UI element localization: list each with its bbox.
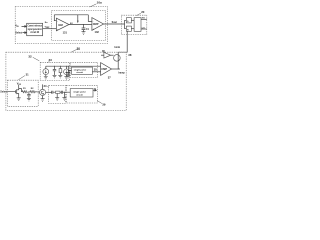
svg-text:Isink: Isink: [115, 46, 121, 49]
ground (stub b): [62, 98, 66, 101]
svg-text:132: 132: [95, 30, 100, 34]
wire I1 top to rail: [45, 66, 47, 69]
svg-text:VIN: VIN: [15, 25, 19, 29]
outer dashed box 10a (top converter block): [15, 7, 107, 44]
node label Vref: [45, 26, 50, 29]
leader 10a: [90, 4, 97, 7]
dashed sub-box 31 (reference divider): [8, 80, 39, 106]
wire Q1 source to ground: [18, 95, 20, 98]
wire input Vin arrow: [22, 26, 27, 28]
ground (I1): [44, 77, 48, 80]
svg-text:signal generation: signal generation: [28, 28, 43, 31]
svg-text:R2: R2: [31, 88, 35, 90]
wire CMP output Sout to latch: [104, 23, 123, 25]
leader 32: [33, 57, 40, 61]
junction dot divider: [28, 91, 29, 92]
wire output LO: [141, 28, 147, 30]
leader 20: [136, 13, 141, 15]
wire feedback top rail: [54, 14, 88, 16]
wire latch to driver bottom: [131, 28, 134, 30]
ground (C6): [66, 75, 70, 78]
pin label R: [127, 29, 129, 31]
label 30: [77, 47, 81, 51]
svg-text:35: 35: [94, 67, 98, 71]
dashed sub-box 35 (ramp cell): [70, 62, 97, 77]
leader 31: [18, 76, 25, 80]
svg-text:CMP: CMP: [101, 67, 107, 71]
wire Vdd stub: [18, 85, 20, 89]
block: single pulse circuit B: [70, 89, 93, 97]
driver block: [134, 18, 141, 32]
svg-text:C1: C1: [86, 29, 90, 31]
svg-text:circuit 30: circuit 30: [30, 31, 40, 34]
wire shunt stub a: [56, 93, 58, 97]
wire boxA to CMP2 lower input: [92, 71, 100, 73]
wire latch to driver top: [131, 19, 134, 21]
svg-text:CMP: CMP: [93, 22, 99, 26]
junction dot stub b: [64, 92, 65, 93]
svg-text:circuit: circuit: [76, 93, 83, 96]
transistor Q1 (switch MOSFET): [8, 89, 19, 95]
junction dot C2: [54, 66, 55, 67]
wire shunt stub b: [63, 92, 65, 97]
net label Isink: [115, 46, 121, 49]
wire Q1 drain to divider: [19, 89, 22, 92]
block: single pulse circuit A: [72, 67, 93, 74]
label 10a: [97, 1, 102, 5]
dashed box 20 (drive logic): [121, 15, 147, 34]
svg-text:30: 30: [77, 47, 81, 51]
wire I1 bottom: [45, 75, 47, 77]
net label Sout: [112, 21, 118, 24]
wire R5 to C5: [60, 91, 61, 93]
label 36b: [94, 88, 97, 90]
wire I2 bottom: [65, 75, 67, 77]
leader 39: [97, 101, 102, 104]
resistor R3: [22, 91, 27, 93]
label LO: [142, 27, 145, 29]
leader 33: [48, 61, 50, 63]
node label Eo: [70, 23, 73, 25]
ground (I2): [64, 77, 68, 80]
comparator CMP2: [101, 63, 112, 76]
wire Q2 emitter ground: [42, 96, 44, 99]
current source I1: [43, 69, 49, 75]
junction dot R2: [60, 66, 61, 67]
svg-text:R1: R1: [23, 88, 27, 90]
dashed sub-box around single pulse circuit B: [66, 85, 97, 103]
wire output HO: [141, 18, 147, 20]
wire GM inverting input feedback riser: [54, 15, 56, 21]
svg-text:Iramp: Iramp: [118, 72, 125, 74]
wire buffer input: [101, 54, 104, 56]
junction dot I2: [66, 66, 67, 67]
capacitor C1: [82, 25, 86, 32]
svg-text:HO: HO: [142, 18, 146, 20]
power label Vdd: [17, 82, 22, 86]
pin label S: [127, 21, 129, 23]
svg-text:Current reference: Current reference: [28, 25, 43, 28]
ground (R2): [58, 75, 62, 78]
op-amp GM 131 (error amplifier): [56, 18, 69, 31]
comparator CMP 132: [92, 18, 104, 31]
svg-text:single pulse: single pulse: [73, 91, 86, 93]
wire I2 top: [65, 66, 67, 69]
label 38: [128, 53, 132, 57]
wire from box20 down to transistor 38: [118, 32, 127, 53]
label R4: [31, 88, 35, 90]
wire input Select arrow: [23, 32, 27, 34]
svg-text:10a: 10a: [97, 1, 102, 5]
label 35: [94, 67, 98, 71]
label HO: [142, 18, 146, 20]
capacitor C6 (node filter): [67, 70, 70, 75]
wire boxB output arrow: [93, 90, 96, 92]
label 34: [44, 84, 47, 88]
svg-text:VREF: VREF: [45, 26, 50, 29]
latch cell S: [126, 18, 131, 23]
wire GM output to CMP: [69, 24, 92, 26]
dashed sub-box 33 (bias current cell): [40, 62, 69, 80]
svg-text:single pulse: single pulse: [74, 69, 87, 71]
wire block30 to GM with node Vref: [43, 28, 57, 30]
svg-text:38: 38: [128, 53, 132, 57]
svg-text:39: 39: [102, 102, 106, 106]
block: current reference signal generation circuit 30: [27, 23, 43, 35]
input label Vin: [15, 25, 19, 29]
label 132: [95, 30, 100, 34]
ground (C3): [27, 98, 31, 101]
label 33: [49, 58, 53, 62]
dashed sub-box 34 (filter cell): [49, 85, 66, 103]
junction dot rail tap: [68, 66, 69, 67]
wire latch input split: [121, 20, 126, 28]
ground (C2): [53, 75, 57, 78]
input label Select (bottom): [0, 91, 7, 94]
svg-text:32: 32: [28, 54, 32, 58]
buffer 36: [104, 52, 111, 58]
resistor R2: [59, 66, 61, 75]
node label Ea: [45, 22, 48, 24]
label 36: [102, 50, 105, 53]
svg-text:GM: GM: [58, 23, 63, 27]
label 39: [102, 102, 106, 106]
wire rail down to CMP input: [88, 15, 92, 22]
resistor R5: [56, 91, 61, 93]
label 20: [141, 10, 145, 14]
inner dashed box (PWM comparator block): [52, 10, 106, 40]
leader 34: [47, 85, 49, 88]
ground (stub a): [55, 98, 59, 101]
svg-text:VDD: VDD: [17, 82, 22, 86]
svg-text:Select: Select: [15, 31, 22, 34]
resistor R4: [30, 91, 36, 93]
label 131: [63, 31, 68, 35]
svg-text:20: 20: [141, 10, 145, 14]
wire rail tap into single pulse box: [68, 66, 71, 70]
label C1: [86, 29, 90, 31]
junction dot CMP2 out: [118, 68, 119, 69]
capacitor C5 (series): [61, 91, 70, 94]
outer dashed box 30 (detail schematic): [6, 52, 126, 110]
label 37: [108, 75, 111, 79]
svg-text:LO: LO: [142, 27, 145, 29]
capacitor C2: [53, 66, 56, 75]
wire Q2 collector stub: [42, 84, 44, 89]
svg-text:37: 37: [108, 75, 111, 79]
label R3: [23, 88, 27, 90]
transistor 38 (sink MOSFET): [114, 55, 121, 62]
ground (Q2): [41, 99, 45, 102]
capacitor C4 (series): [52, 91, 56, 94]
latch cell R: [126, 26, 131, 31]
wire divider out: [35, 91, 39, 94]
svg-text:Select: Select: [0, 91, 7, 94]
wire Q2 to filter: [46, 91, 52, 93]
label 31: [26, 72, 29, 76]
svg-text:31: 31: [26, 72, 29, 76]
svg-text:circuit: circuit: [76, 71, 83, 74]
wire transistor channel: [117, 52, 119, 69]
svg-text:34: 34: [44, 84, 47, 88]
wire bias rail: [46, 65, 101, 67]
svg-text:Ea: Ea: [45, 22, 48, 24]
label 32: [28, 54, 32, 58]
ground (C1): [82, 32, 86, 35]
current arrow at node Eo: [77, 15, 79, 21]
current source I2: [64, 69, 70, 75]
wire CMP2 output: [112, 68, 121, 70]
capacitor C3: [27, 92, 30, 99]
junction dot C1 node: [83, 24, 84, 25]
net label Iramp: [118, 72, 125, 74]
transistor Q2 (current mirror BJT): [40, 89, 46, 95]
svg-text:131: 131: [63, 31, 68, 35]
leader 30: [72, 50, 77, 53]
ground (Q1): [17, 98, 21, 101]
wire buffer out to gate: [111, 54, 114, 56]
svg-text:Sout: Sout: [112, 21, 118, 24]
input label Select: [15, 31, 22, 34]
